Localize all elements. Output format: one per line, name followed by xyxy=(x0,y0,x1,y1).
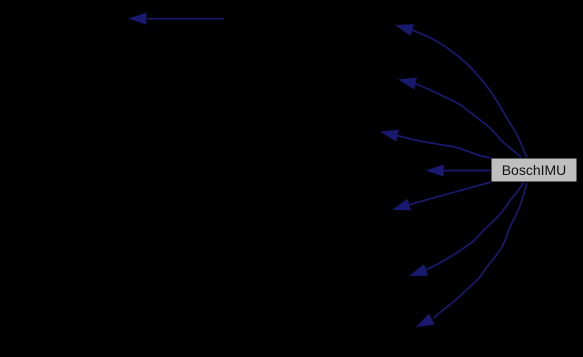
edge BoschIMU to caller 5 xyxy=(394,182,492,210)
edge BoschIMU to caller 7 xyxy=(417,183,527,327)
edge caller-of-caller xyxy=(130,13,224,24)
edge BoschIMU to caller 6 xyxy=(411,183,524,276)
edge BoschIMU to caller 4 xyxy=(427,165,491,176)
edge BoschIMU to caller 1 xyxy=(396,25,527,158)
edge BoschIMU to caller 2 xyxy=(400,78,522,157)
edge BoschIMU to caller 3 xyxy=(382,130,492,158)
svg-text:BoschIMU: BoschIMU xyxy=(502,162,567,178)
node BoschIMU box xyxy=(491,158,577,182)
node BoschIMU label xyxy=(502,162,567,178)
